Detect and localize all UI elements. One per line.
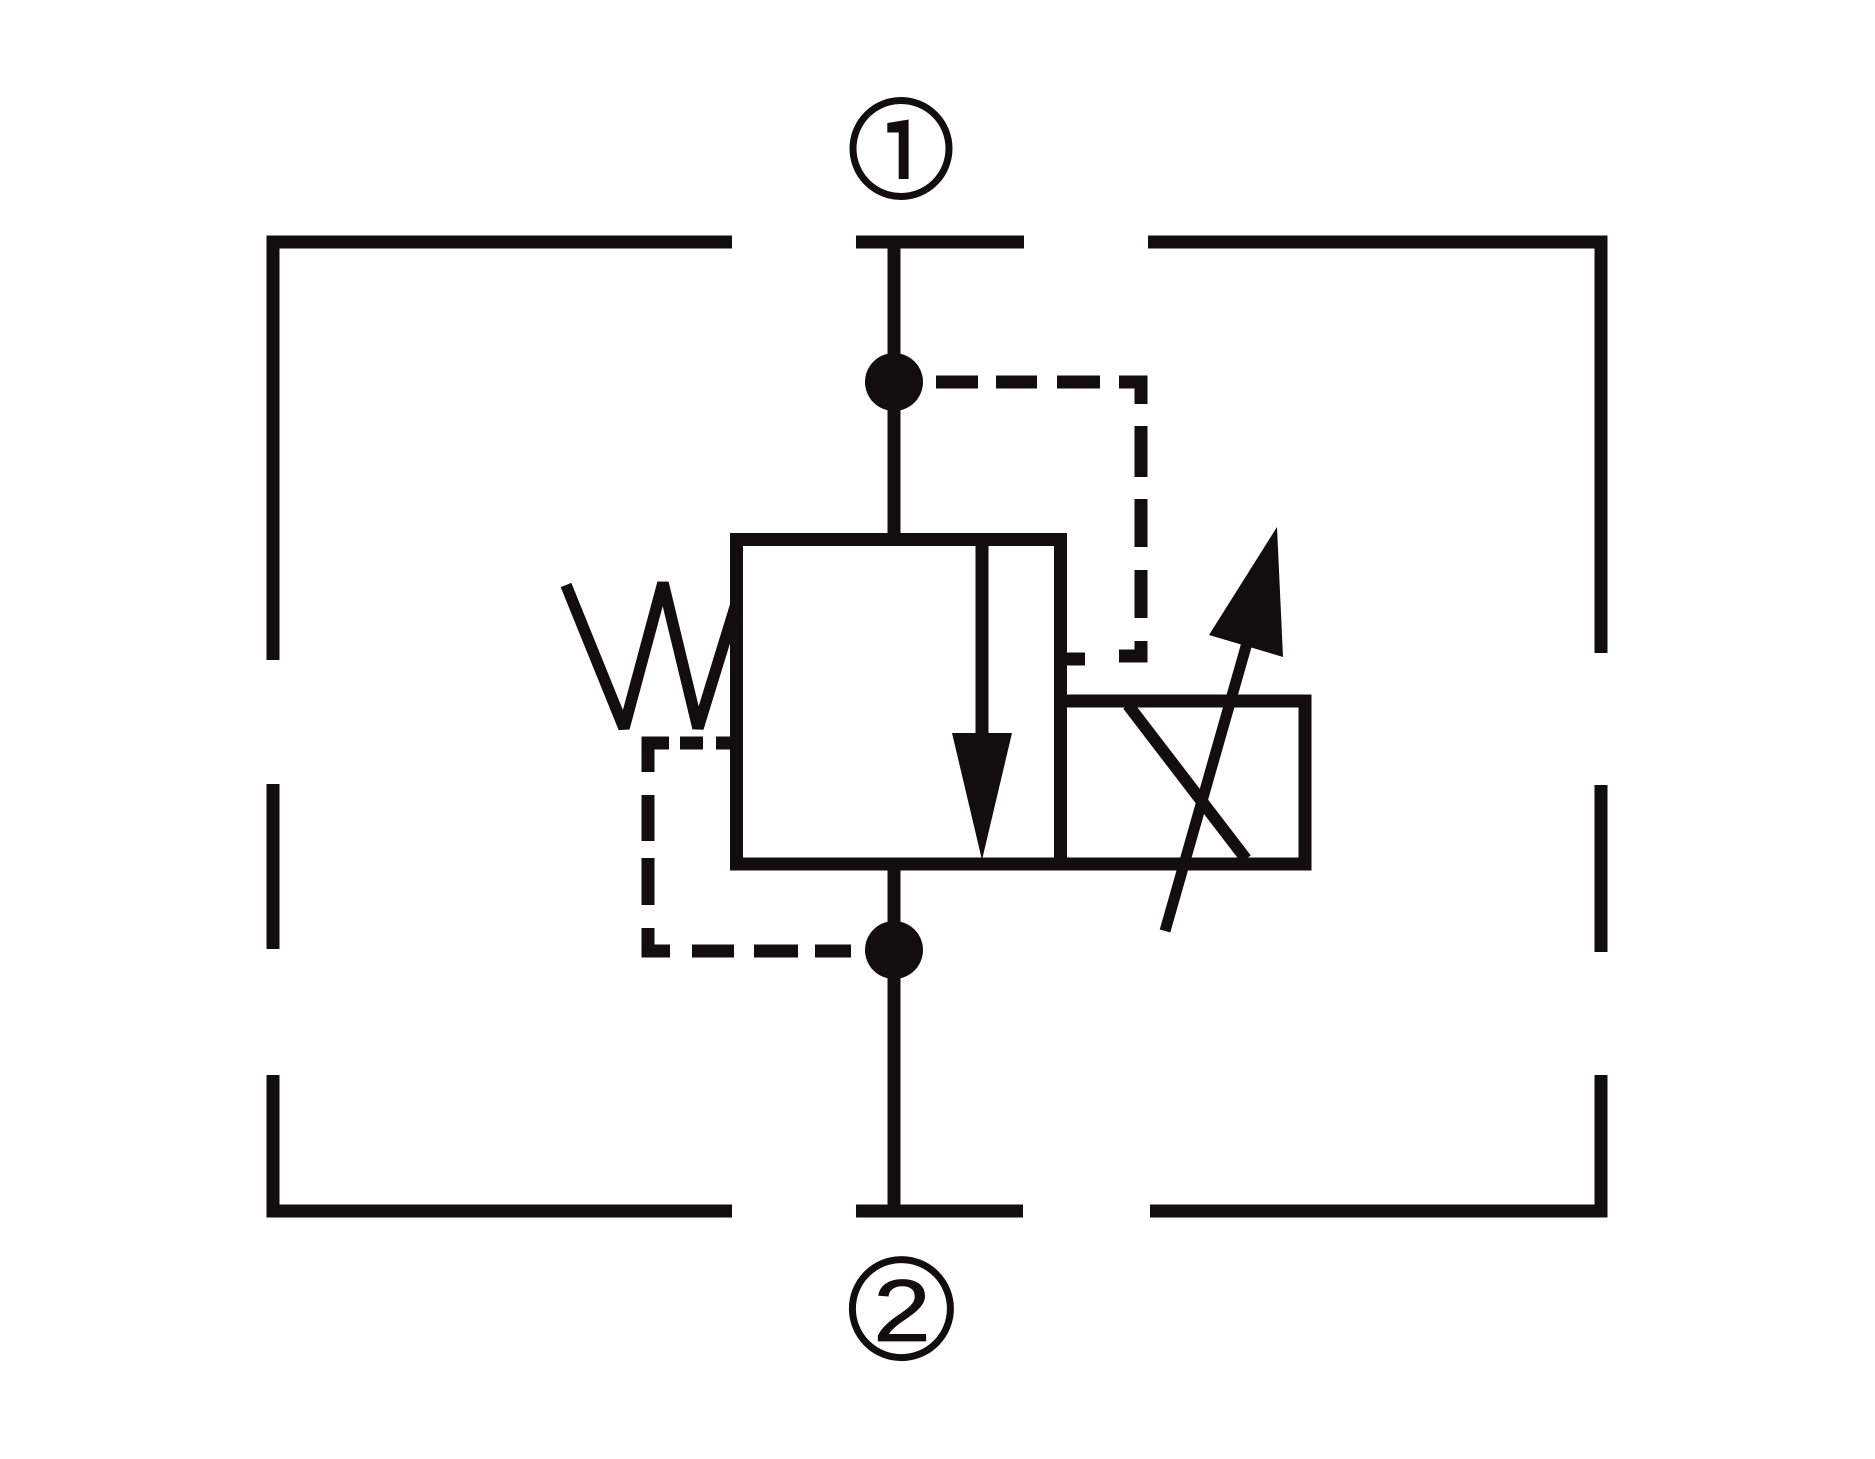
cartridge envelope right border upper segment bbox=[1595, 236, 1608, 654]
port 2 label "2" bbox=[873, 1262, 931, 1360]
valve body V1 envelope square bbox=[737, 540, 1061, 865]
solenoid S1 coil box bbox=[1061, 701, 1306, 864]
pilot line lower dash 1 bbox=[716, 737, 731, 750]
pilot line upper dash 3 bbox=[1057, 376, 1100, 389]
port 2 circle bbox=[852, 1260, 950, 1358]
pilot line lower vertical dash 1 bbox=[642, 795, 655, 841]
proportional adjustment arrow shaft bbox=[1165, 643, 1247, 931]
pilot line upper lower corner dash bbox=[1119, 641, 1141, 656]
cartridge envelope right border lower segment bbox=[1595, 1075, 1608, 1218]
cartridge envelope right border middle segment bbox=[1595, 785, 1608, 952]
proportional adjustment arrowhead bbox=[1209, 527, 1283, 657]
spring W bbox=[566, 583, 737, 728]
pilot stub at valve right side bbox=[1060, 653, 1085, 666]
cartridge envelope left border upper segment bbox=[267, 236, 280, 661]
port 1 stub bar bbox=[856, 236, 1024, 249]
port 1 label "1" bbox=[887, 120, 908, 180]
port 2 stub bar bbox=[856, 1205, 1023, 1218]
cartridge envelope bottom border right segment bbox=[1150, 1205, 1608, 1218]
pilot line lower bottom dash 2 bbox=[754, 945, 798, 958]
pilot line upper dash 1 bbox=[936, 376, 978, 389]
wire valve body to port 2 bbox=[888, 862, 901, 1211]
cartridge envelope top border right segment bbox=[1148, 236, 1608, 249]
node junction dot upper bbox=[865, 353, 923, 411]
pilot line lower vertical dash 2 bbox=[642, 858, 655, 905]
cartridge envelope left border lower segment bbox=[267, 1075, 280, 1218]
pilot line upper vertical dash 2 bbox=[1135, 499, 1148, 547]
solenoid S1 diagonal bbox=[1128, 705, 1246, 859]
wire port 1 to valve body bbox=[888, 240, 901, 545]
pilot line lower bottom dash 3 bbox=[815, 945, 851, 958]
cartridge envelope bottom border left segment bbox=[267, 1205, 732, 1218]
pilot line lower dash 2 bbox=[680, 737, 703, 750]
pilot line upper corner dash bbox=[1119, 382, 1141, 404]
pilot line lower bottom corner dash bbox=[648, 928, 670, 951]
cartridge envelope top border left segment bbox=[267, 236, 732, 249]
node junction dot lower bbox=[865, 921, 923, 979]
cartridge envelope left border middle segment bbox=[267, 784, 280, 949]
pilot line upper vertical dash 1 bbox=[1135, 426, 1148, 477]
svg-text:2: 2 bbox=[873, 1262, 931, 1360]
valve V1 flow path arrowhead bbox=[952, 733, 1012, 860]
pilot line upper vertical dash 3 bbox=[1135, 570, 1148, 618]
port 1 circle bbox=[853, 101, 949, 197]
pilot line lower bottom dash 1 bbox=[692, 945, 734, 958]
pilot line upper dash 2 bbox=[996, 376, 1037, 389]
pilot line lower left corner dash bbox=[648, 743, 669, 772]
valve V1 flow path line bbox=[976, 543, 989, 740]
